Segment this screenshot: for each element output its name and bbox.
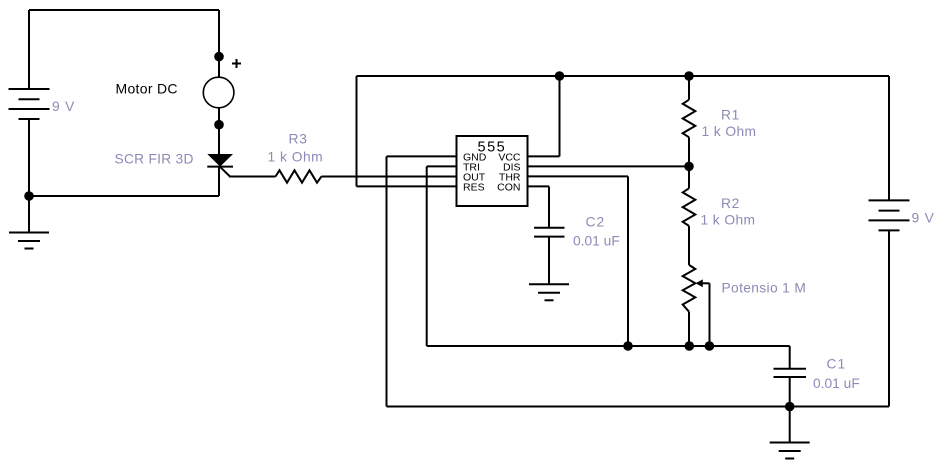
svg-text:1 k Ohm: 1 k Ohm (702, 124, 757, 139)
svg-text:1 k Ohm: 1 k Ohm (701, 213, 756, 228)
svg-text:R3: R3 (289, 132, 308, 147)
svg-text:C1: C1 (827, 357, 847, 372)
svg-text:R1: R1 (721, 108, 740, 123)
svg-text:CON: CON (497, 182, 520, 194)
svg-text:RES: RES (463, 182, 485, 194)
svg-text:9 V: 9 V (52, 99, 75, 114)
svg-text:C2: C2 (586, 215, 606, 230)
svg-text:Motor DC: Motor DC (116, 81, 178, 97)
svg-text:0.01 uF: 0.01 uF (813, 376, 860, 391)
svg-text:1 k Ohm: 1 k Ohm (268, 150, 324, 165)
svg-text:SCR FIR 3D: SCR FIR 3D (115, 151, 194, 166)
svg-text:9 V: 9 V (912, 211, 935, 226)
svg-text:0.01 uF: 0.01 uF (573, 234, 620, 249)
svg-text:Potensio 1 M: Potensio 1 M (722, 280, 807, 295)
svg-text:R2: R2 (721, 196, 740, 211)
